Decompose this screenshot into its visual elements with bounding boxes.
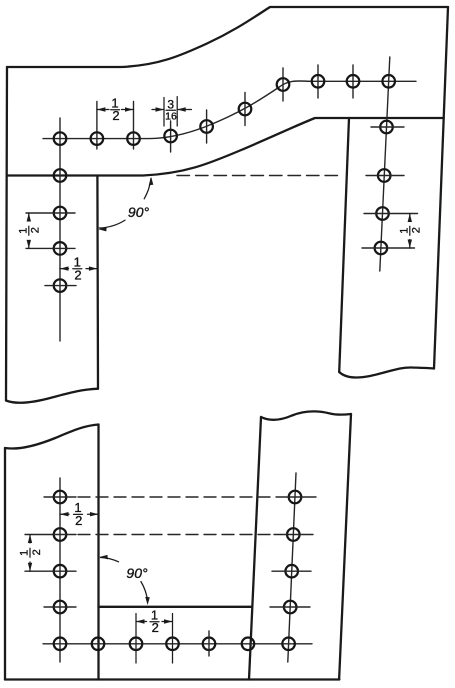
rivet holes lower left column <box>54 491 67 650</box>
upper right member rivet column centerline <box>380 57 390 271</box>
upper right member hole ticks <box>362 127 418 248</box>
rivet holes lower row <box>92 638 255 651</box>
svg-text:3: 3 <box>167 98 174 112</box>
rivet holes upper right member column <box>375 121 393 255</box>
upper left member right edge <box>96 176 99 389</box>
dimension 1/2 vertical upper left <box>17 213 41 248</box>
upper left member bottom break line <box>6 389 98 403</box>
svg-text:2: 2 <box>74 267 81 282</box>
lower right member rivet column centerline <box>288 473 296 662</box>
dimension 1/2 rivet pitch upper <box>97 96 134 124</box>
upper right member left edge <box>339 118 349 372</box>
dimension 1/2 edge distance upper left <box>60 254 97 282</box>
svg-text:1: 1 <box>17 228 29 234</box>
dimension 3/16 hole diameter <box>152 97 192 126</box>
rivet holes lower right column <box>282 491 301 650</box>
upper band top edge <box>7 7 448 67</box>
dashed reference line lower 2 <box>78 534 270 536</box>
dashed reference line upper <box>177 175 339 177</box>
svg-text:90°: 90° <box>126 565 148 581</box>
rivet holes upper left member column <box>54 169 67 292</box>
lower left member hole ticks <box>25 497 76 607</box>
lower right member top break line <box>261 411 351 419</box>
svg-text:16: 16 <box>165 111 177 123</box>
lower left member right edge <box>97 425 99 680</box>
upper right member bottom break line <box>339 367 434 377</box>
lower band top edge <box>99 606 253 608</box>
angle 90 degrees lower <box>99 555 150 605</box>
dimension 1/2 edge distance lower left <box>60 500 99 528</box>
svg-text:1: 1 <box>398 228 410 234</box>
lower right member left edge <box>249 417 261 680</box>
svg-text:2: 2 <box>75 513 82 528</box>
upper band bottom edge <box>7 118 444 176</box>
upper left member hole ticks <box>26 213 76 286</box>
upper left member rivet column centerline <box>59 118 61 341</box>
lower rivet row centerline <box>43 643 312 645</box>
svg-text:2: 2 <box>30 227 42 233</box>
svg-text:1: 1 <box>19 550 31 556</box>
rivet row centerline curve <box>43 81 416 139</box>
lower left member rivet column centerline <box>59 478 61 662</box>
svg-text:2: 2 <box>112 108 119 123</box>
upper left member left edge <box>6 67 7 401</box>
lower band bottom edge <box>5 678 339 680</box>
dimension 1/2 vertical upper right <box>398 214 422 249</box>
dimension 1/2 rivet pitch lower <box>136 607 173 663</box>
lower left member left edge <box>4 448 6 680</box>
rivet row hole ticks <box>97 65 353 152</box>
dashed reference line lower 1 <box>78 496 272 498</box>
svg-text:90°: 90° <box>128 204 150 220</box>
svg-text:2: 2 <box>411 227 423 233</box>
angle 90 degrees upper <box>98 177 153 231</box>
lower left member top break line <box>5 425 99 449</box>
lower row hole tick <box>208 631 210 656</box>
lower right member hole ticks <box>270 497 316 607</box>
upper band right edge <box>434 7 448 369</box>
svg-text:2: 2 <box>152 620 159 635</box>
lower right member right edge <box>339 414 351 680</box>
svg-text:2: 2 <box>31 549 43 555</box>
dimension 1/2 vertical lower left <box>19 535 43 572</box>
rivet holes upper row <box>54 75 395 145</box>
